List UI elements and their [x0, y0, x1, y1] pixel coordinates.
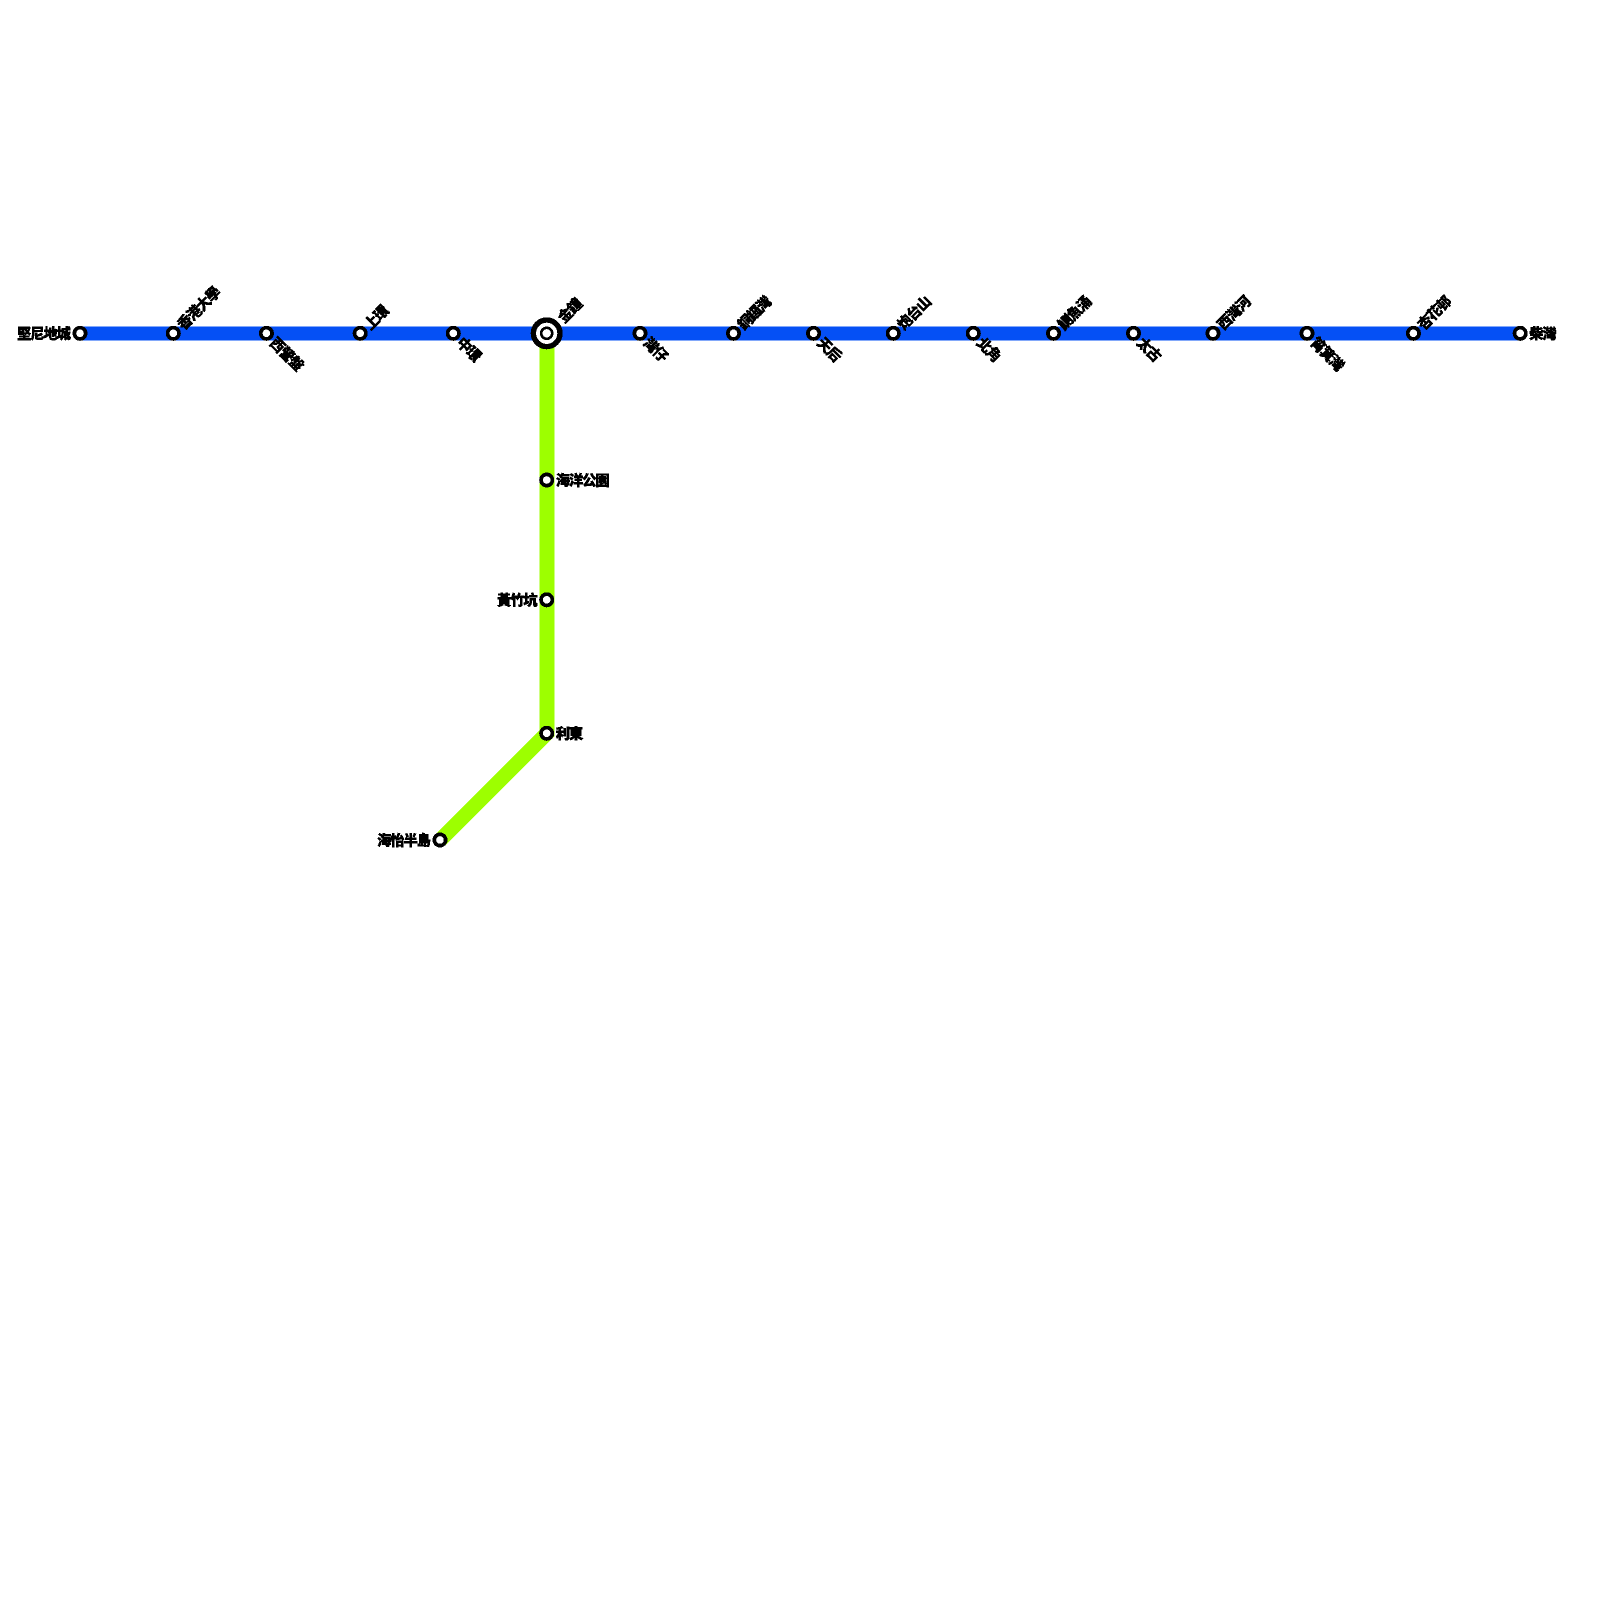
- station 太古: [1128, 328, 1164, 364]
- station 筲箕灣: [1301, 328, 1347, 373]
- interchange station 金鐘: [533, 296, 584, 347]
- station 杏花邨: [1408, 293, 1454, 339]
- station 柴灣: [1515, 326, 1557, 340]
- station 利東: [541, 726, 583, 740]
- station 堅尼地城: [18, 326, 86, 340]
- station 香港大學: [168, 284, 223, 339]
- station 炮台山: [888, 294, 933, 339]
- Island Line (blue): [80, 326, 1520, 340]
- station 黃竹坑: [497, 593, 552, 607]
- station 北角: [968, 328, 1003, 363]
- station 鰂魚涌: [1048, 294, 1093, 339]
- station 灣仔: [634, 328, 670, 364]
- station 銅鑼灣: [728, 293, 773, 338]
- station 西灣河: [1207, 294, 1252, 339]
- station 海洋公園: [541, 473, 609, 487]
- station 西營盤: [261, 328, 306, 373]
- station 海怡半島: [378, 833, 446, 847]
- station 上環: [355, 303, 391, 339]
- station 天后: [808, 328, 844, 364]
- station 中環: [448, 328, 484, 364]
- South Island Line (green): [440, 333, 547, 840]
